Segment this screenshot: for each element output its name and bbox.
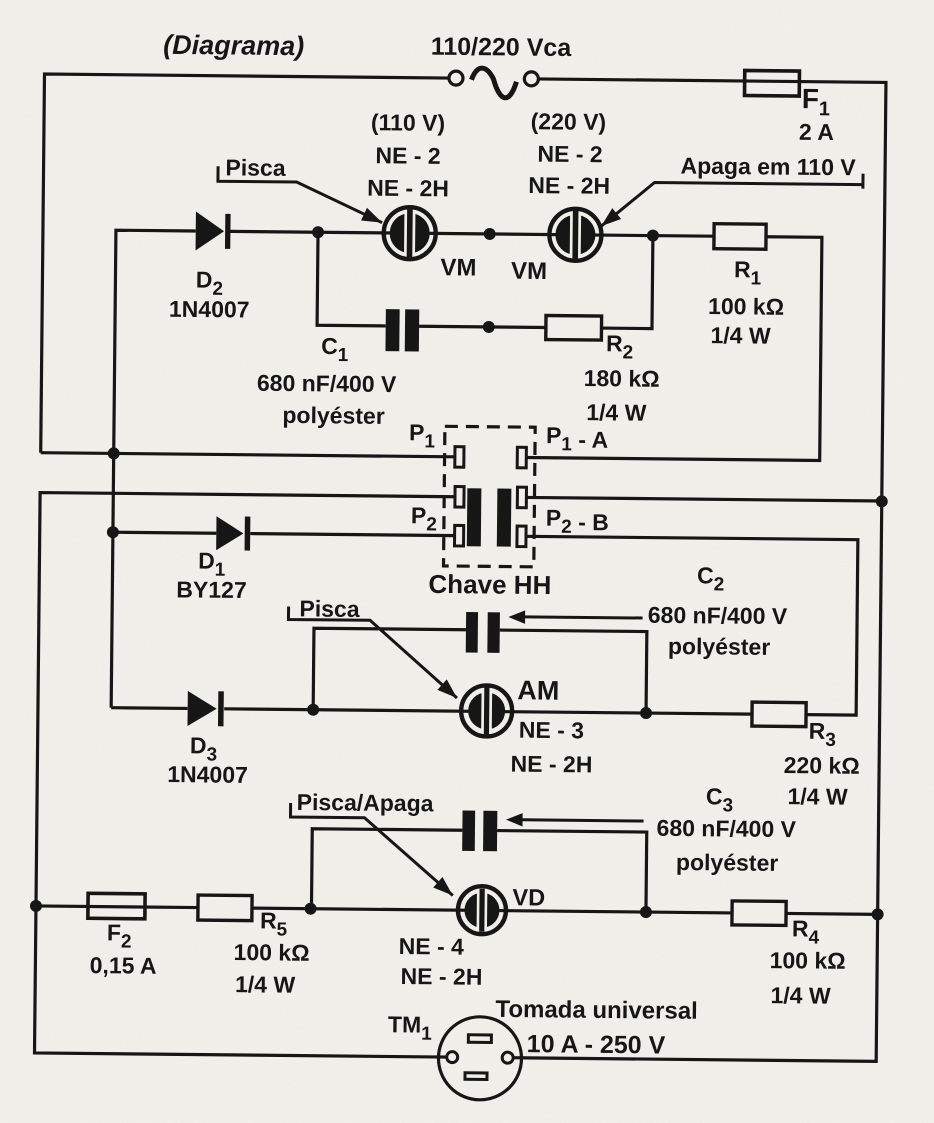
outlet TM1 [436, 1016, 524, 1100]
label NE - 2H col1 [367, 175, 449, 202]
switch pin mid-right [517, 487, 526, 508]
label P2 - B [546, 505, 609, 539]
annotation arrow C3 value [506, 813, 644, 828]
label P1 [409, 419, 436, 452]
label R5 [260, 907, 288, 940]
wire lamp row 1 [230, 231, 714, 236]
fuse F2 [88, 893, 145, 919]
wire NE-3 row [111, 708, 752, 714]
label 1N4007 D2 [169, 296, 250, 323]
label title Diagrama [163, 30, 304, 61]
junction node lamp2 right [647, 230, 659, 242]
label Pisca mid [299, 595, 360, 622]
capacitor C3 [462, 811, 497, 852]
label Pisca/Apaga [297, 789, 434, 816]
wire D1 row to P2 [113, 532, 455, 535]
junction node lamp4 right [640, 906, 652, 918]
fuse F1 [745, 71, 800, 97]
junction node P1 row [108, 447, 120, 459]
label R1 [734, 256, 762, 289]
capacitor C2 [466, 612, 500, 653]
label 220 kohm R3 [784, 752, 860, 779]
junction node NE-3 right [640, 707, 652, 719]
resistor R2 [546, 316, 602, 341]
resistor R5 [198, 895, 252, 921]
annotation arrow Apaga em 110 V [601, 171, 863, 229]
switch pin P1-A [517, 447, 526, 468]
label 1/4 W R5 [235, 971, 296, 998]
wire switch mid row to right rail [525, 497, 881, 501]
switch pin P1 [455, 447, 464, 468]
annotation arrow Pisca/Apaga [290, 803, 454, 896]
label R4 [792, 915, 820, 948]
diode D1 [216, 516, 250, 550]
label C1 [321, 333, 349, 366]
junction node R5 right [305, 903, 317, 915]
wire top AC feed right and right rail [514, 79, 886, 1062]
label 680 nF/400 V C1 [257, 370, 397, 397]
junction node lamp1 left [312, 226, 324, 238]
wire bottom left rail [35, 493, 455, 1058]
diode D2 [196, 212, 231, 251]
label D1 [198, 547, 226, 580]
AC source 110/220 Vca [449, 68, 539, 98]
junction node D1 row [107, 526, 119, 538]
capacitor C1 [385, 309, 419, 351]
label VM left [440, 254, 476, 281]
resistor R3 [752, 702, 806, 727]
label 2 A [799, 119, 834, 145]
label 1/4 W R4 [770, 982, 831, 1009]
label C2 [697, 562, 725, 595]
junction node NE-3 left [307, 704, 319, 716]
label NE - 2H col4 [400, 963, 482, 990]
label Pisca top [225, 154, 286, 181]
annotation arrow Pisca top [218, 166, 383, 222]
resistor R1 [714, 224, 766, 250]
label polyester C2 [668, 633, 771, 660]
neon lamp NE-2 220V VM [549, 209, 602, 262]
switch pin mid-left [455, 487, 464, 508]
wire C3 branch [311, 829, 646, 912]
label NE - 2 col1 [375, 142, 440, 169]
label 100 kohm R4 [770, 947, 846, 974]
neon lamp NE-2 110V VM [383, 207, 436, 260]
label 100 kohm R5 [233, 939, 309, 966]
annotation arrow C2 value [508, 610, 642, 625]
junction node F2 left [30, 900, 42, 912]
label polyester C1 [282, 402, 385, 429]
label 1/4 W R2 [586, 399, 647, 426]
label Apaga em 110 V [680, 153, 856, 181]
wire R1 to P1-A [525, 234, 822, 460]
label D2 [196, 267, 224, 300]
label C3 [706, 783, 734, 816]
label F1 [802, 83, 831, 120]
label NE - 2H col2 [528, 172, 610, 199]
label P2 [411, 502, 437, 535]
junction node right rail mid [876, 495, 888, 507]
label NE - 3 [519, 717, 584, 744]
switch toggle bar right [497, 489, 512, 547]
switch pin P2-B [517, 526, 526, 547]
label 1/4 W R1 [710, 322, 771, 349]
label AM [517, 675, 559, 705]
neon lamp NE-4 VD [458, 886, 506, 934]
label P1 - A [546, 422, 608, 456]
annotation arrow Pisca mid [288, 606, 458, 697]
label NE - 2H col3 [510, 751, 592, 778]
label (110 V) [371, 109, 445, 136]
label VD [512, 884, 545, 910]
label TM1 [388, 1011, 433, 1044]
label 110/220 Vca [431, 33, 573, 62]
label 100 kohm R1 [708, 293, 784, 320]
wire C1 branch [317, 232, 653, 328]
label 180 kohm R2 [584, 365, 660, 392]
label (220 V) [531, 108, 607, 135]
wire mid vertical branch [111, 230, 196, 708]
label R2 [606, 330, 634, 363]
switch toggle bar left [467, 488, 482, 546]
label 1/4 W R3 [787, 783, 848, 810]
junction node R4 right rail [872, 908, 884, 920]
diode D3 [187, 691, 223, 726]
label F2 [107, 919, 132, 952]
resistor R4 [732, 901, 786, 926]
label 680 nF/400 V C3 [656, 815, 796, 842]
switch pin P2 [455, 525, 464, 546]
wire top AC feed left [41, 74, 449, 457]
label Chave HH [428, 569, 551, 600]
label 1N4007 D3 [167, 761, 248, 788]
wire P2-B row down to R3 [523, 536, 858, 715]
label polyester C3 [676, 849, 779, 876]
label D3 [190, 732, 218, 765]
wire bottom lamp row [36, 906, 878, 914]
label Tomada universal [495, 996, 698, 1025]
junction node C1-R2 [483, 321, 495, 333]
label BY127 [176, 576, 247, 603]
junction node lamp1 right [484, 228, 496, 240]
wire C2 branch [313, 628, 647, 713]
label 680 nF/400 V C2 [648, 602, 788, 629]
wire P1 row [41, 453, 455, 457]
label 0,15 A [90, 952, 157, 979]
label VM right [511, 258, 547, 285]
label NE - 2 col2 [537, 141, 602, 168]
label NE - 4 [399, 933, 465, 960]
switch Chave HH dashed box [444, 426, 536, 566]
label 10 A - 250 V [527, 1030, 666, 1059]
neon lamp NE-3 AM [461, 685, 513, 737]
label R3 [809, 718, 837, 751]
